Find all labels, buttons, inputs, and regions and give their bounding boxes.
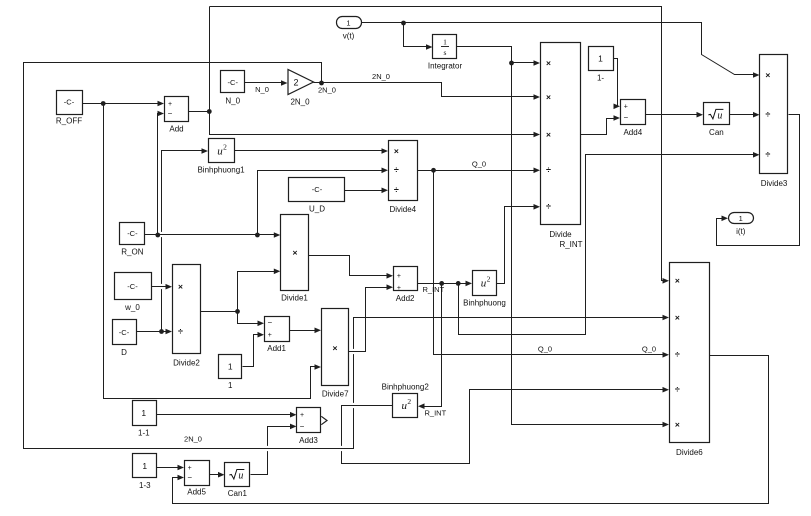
svg-text:Add5: Add5 <box>187 488 206 497</box>
svg-text:÷: ÷ <box>546 165 551 175</box>
svg-text:×: × <box>293 247 298 257</box>
svg-text:−: − <box>300 422 305 431</box>
svg-text:+: + <box>397 273 401 280</box>
svg-text:1: 1 <box>228 361 233 371</box>
svg-text:+: + <box>268 332 272 339</box>
svg-text:-C-: -C- <box>228 78 239 87</box>
svg-text:×: × <box>394 146 399 156</box>
svg-text:×: × <box>765 70 770 80</box>
svg-text:v(t): v(t) <box>343 32 355 41</box>
svg-text:2N_0: 2N_0 <box>372 72 390 81</box>
svg-text:Divide6: Divide6 <box>676 448 703 457</box>
svg-text:i(t): i(t) <box>736 227 746 236</box>
svg-text:R_INT: R_INT <box>559 240 582 249</box>
svg-text:+: + <box>397 285 401 292</box>
svg-text:1: 1 <box>739 214 743 223</box>
svg-text:Divide: Divide <box>549 230 572 239</box>
svg-text:÷: ÷ <box>765 110 770 120</box>
svg-text:U_D: U_D <box>309 204 325 213</box>
svg-text:R_ON: R_ON <box>121 248 143 257</box>
svg-text:Can1: Can1 <box>228 489 248 498</box>
svg-text:×: × <box>546 129 551 139</box>
svg-text:×: × <box>333 343 338 353</box>
svg-text:Binhphuong1: Binhphuong1 <box>197 166 245 175</box>
svg-text:Divide2: Divide2 <box>173 358 200 367</box>
svg-text:÷: ÷ <box>675 385 680 395</box>
svg-text:÷: ÷ <box>178 326 183 336</box>
svg-text:-C-: -C- <box>64 97 75 106</box>
svg-text:2: 2 <box>293 77 298 87</box>
svg-text:+: + <box>300 412 304 419</box>
svg-text:1: 1 <box>141 408 146 418</box>
svg-text:Can: Can <box>709 128 724 137</box>
svg-text:×: × <box>675 276 680 286</box>
svg-text:1: 1 <box>346 19 350 28</box>
svg-text:+: + <box>168 101 172 108</box>
svg-text:1: 1 <box>142 461 147 471</box>
svg-text:-C-: -C- <box>119 328 130 337</box>
svg-text:1: 1 <box>598 54 603 64</box>
svg-text:R_OFF: R_OFF <box>56 117 82 126</box>
svg-text:×: × <box>675 419 680 429</box>
svg-text:s: s <box>444 48 447 57</box>
svg-text:R_INT: R_INT <box>423 285 445 294</box>
svg-text:×: × <box>546 58 551 68</box>
svg-text:2: 2 <box>407 397 411 406</box>
svg-text:Binhphuong2: Binhphuong2 <box>382 382 430 391</box>
svg-text:Q_0: Q_0 <box>538 345 552 354</box>
svg-text:D: D <box>121 348 127 357</box>
svg-text:÷: ÷ <box>546 202 551 212</box>
svg-text:Divide7: Divide7 <box>322 390 349 399</box>
svg-text:u: u <box>717 110 722 121</box>
svg-text:R_INT: R_INT <box>425 409 447 418</box>
svg-text:Divide4: Divide4 <box>389 205 416 214</box>
svg-text:+: + <box>188 465 192 472</box>
svg-text:1-3: 1-3 <box>139 481 151 490</box>
svg-text:1: 1 <box>443 38 447 47</box>
svg-text:2N_0: 2N_0 <box>184 435 202 444</box>
svg-text:N_0: N_0 <box>255 85 269 94</box>
svg-text:2: 2 <box>487 275 491 284</box>
svg-text:1: 1 <box>228 381 233 390</box>
svg-text:-C-: -C- <box>127 229 138 238</box>
svg-text:Q_0: Q_0 <box>642 345 656 354</box>
svg-text:2N_0: 2N_0 <box>318 86 336 95</box>
svg-text:+: + <box>624 104 628 111</box>
svg-text:Q_0: Q_0 <box>472 160 486 169</box>
svg-text:2: 2 <box>223 142 227 151</box>
svg-text:÷: ÷ <box>394 185 399 195</box>
svg-text:Add3: Add3 <box>299 436 318 445</box>
svg-text:×: × <box>178 282 183 292</box>
svg-text:Divide1: Divide1 <box>281 294 308 303</box>
svg-text:÷: ÷ <box>765 150 770 160</box>
svg-text:N_0: N_0 <box>225 96 240 105</box>
svg-text:Binhphuong: Binhphuong <box>463 299 506 308</box>
svg-text:÷: ÷ <box>394 165 399 175</box>
svg-text:×: × <box>675 312 680 322</box>
svg-text:1-: 1- <box>597 74 604 83</box>
svg-text:2N_0: 2N_0 <box>290 98 310 107</box>
svg-text:Add1: Add1 <box>267 344 286 353</box>
svg-text:÷: ÷ <box>675 350 680 360</box>
svg-text:Add: Add <box>169 125 183 134</box>
svg-text:−: − <box>623 113 628 122</box>
svg-text:-C-: -C- <box>312 185 323 194</box>
svg-text:−: − <box>168 109 173 118</box>
svg-text:Add2: Add2 <box>396 294 415 303</box>
svg-text:Divide3: Divide3 <box>761 179 788 188</box>
svg-text:-C-: -C- <box>127 282 138 291</box>
svg-text:−: − <box>267 318 272 327</box>
svg-text:Add4: Add4 <box>623 128 642 137</box>
svg-text:−: − <box>187 473 192 482</box>
svg-text:w_0: w_0 <box>124 303 140 312</box>
svg-text:×: × <box>546 92 551 102</box>
svg-text:Integrator: Integrator <box>428 62 463 71</box>
svg-text:1-1: 1-1 <box>138 429 150 438</box>
svg-text:u: u <box>238 471 243 482</box>
